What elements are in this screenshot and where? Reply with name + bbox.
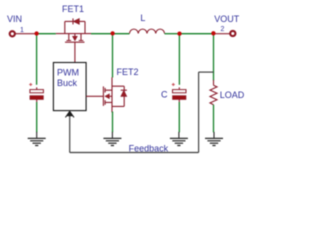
wire switch node to inductor xyxy=(113,33,130,35)
wire LOAD to ground xyxy=(213,105,215,133)
capacitor C xyxy=(172,83,186,102)
diode FET1 body (cathode bar) xyxy=(72,18,74,24)
ground capacitor C xyxy=(170,132,188,146)
svg-text:1: 1 xyxy=(20,27,24,34)
wire C junction down to capacitor C xyxy=(178,34,180,85)
wire feedback left vertical to PWM box xyxy=(69,115,71,153)
ground FET2 xyxy=(103,132,121,146)
wire C junction to VOUT junction xyxy=(179,33,213,35)
wire FET1 source to switch node xyxy=(91,33,113,35)
wire feedback bottom horizontal xyxy=(70,152,199,154)
box PWM Buck controller xyxy=(53,63,86,111)
wire feedback right vertical xyxy=(198,72,200,152)
svg-text:FET1: FET1 xyxy=(62,4,84,14)
wire VIN junction to FET1 xyxy=(37,33,56,35)
svg-text:VIN: VIN xyxy=(7,14,22,24)
svg-text:Feedback: Feedback xyxy=(129,143,169,153)
node switch junction xyxy=(110,31,114,35)
wire VOUT junction down to LOAD xyxy=(213,34,215,81)
wire input cap to ground xyxy=(36,102,38,132)
wire inductor to C junction xyxy=(165,33,180,35)
node VOUT junction xyxy=(211,31,215,35)
wire FET1 gate to PWM box xyxy=(74,42,76,62)
ground input cap xyxy=(28,132,46,146)
inductor L xyxy=(130,29,165,33)
wire VIN junction down to input cap xyxy=(36,34,38,85)
wire PWM box to FET2 gate xyxy=(86,95,104,97)
wire VIN stub xyxy=(16,33,37,35)
svg-text:PWM: PWM xyxy=(57,68,79,78)
wire feedback tap from VOUT rail xyxy=(199,71,214,73)
wire capacitor C to ground xyxy=(178,102,180,132)
node C junction xyxy=(177,31,181,35)
ground LOAD xyxy=(205,132,223,146)
svg-text:C: C xyxy=(161,89,168,99)
diode FET1 body (arrow) xyxy=(73,19,79,25)
capacitor input bulk xyxy=(29,83,43,102)
terminal VOUT pin 2 xyxy=(230,31,235,36)
transistor FET2 xyxy=(103,77,124,112)
transistor FET1 xyxy=(56,21,91,42)
arrowhead feedback into PWM box xyxy=(67,111,73,116)
arrowhead barbs xyxy=(65,111,74,117)
terminal VIN pin 1 xyxy=(10,31,15,36)
diode FET2 body (arrow) xyxy=(121,91,127,97)
wire FET2 source to ground xyxy=(112,112,114,133)
node VIN junction xyxy=(34,31,38,35)
svg-text:L: L xyxy=(140,13,145,23)
resistor LOAD xyxy=(210,85,217,104)
svg-text:FET2: FET2 xyxy=(117,67,139,77)
svg-text:Buck: Buck xyxy=(57,78,78,88)
svg-text:2: 2 xyxy=(221,26,225,33)
wire VOUT stub xyxy=(214,33,230,35)
svg-text:LOAD: LOAD xyxy=(220,90,245,100)
resistor LOAD lead top xyxy=(213,80,215,85)
svg-text:VOUT: VOUT xyxy=(214,14,240,24)
diode FET2 body (cathode bar) xyxy=(121,89,127,91)
wire switch node down to FET2 drain xyxy=(112,34,114,78)
